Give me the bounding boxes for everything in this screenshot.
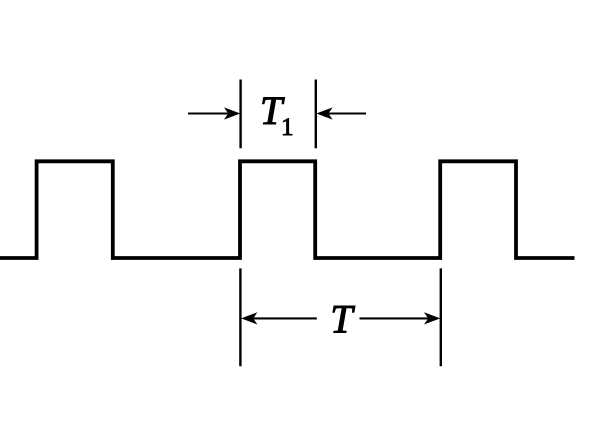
dimension tick: T1 left extension line (x=240) xyxy=(239,80,241,149)
dimension tick: T right extension line (x=441) xyxy=(440,268,442,366)
dimension tick: T1 right extension line (x=316) xyxy=(315,80,317,149)
label T (period) xyxy=(330,296,355,341)
arrow: T left arrow pointing left xyxy=(243,313,317,323)
svg-text:T: T xyxy=(330,296,355,341)
pulse waveform v(t) : periodic rectangular pulse train xyxy=(0,161,575,258)
svg-text:1: 1 xyxy=(281,114,294,141)
arrow: T1 left arrow pointing right xyxy=(188,108,239,118)
dimension tick: T left extension line (x=240) xyxy=(239,268,241,366)
label T1 (pulse width) xyxy=(260,88,294,141)
arrow: T1 right arrow pointing left xyxy=(318,108,366,118)
arrow: T right arrow pointing right xyxy=(360,313,439,323)
